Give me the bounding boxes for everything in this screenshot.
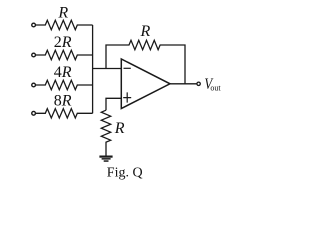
- svg-text:R: R: [140, 23, 151, 40]
- svg-text:2R: 2R: [54, 34, 72, 51]
- svg-text:4R: 4R: [54, 64, 72, 81]
- svg-text:out: out: [210, 84, 221, 93]
- svg-text:Fig. Q: Fig. Q: [107, 165, 143, 180]
- svg-text:8R: 8R: [54, 92, 72, 109]
- svg-text:R: R: [114, 120, 125, 137]
- svg-text:R: R: [57, 5, 68, 22]
